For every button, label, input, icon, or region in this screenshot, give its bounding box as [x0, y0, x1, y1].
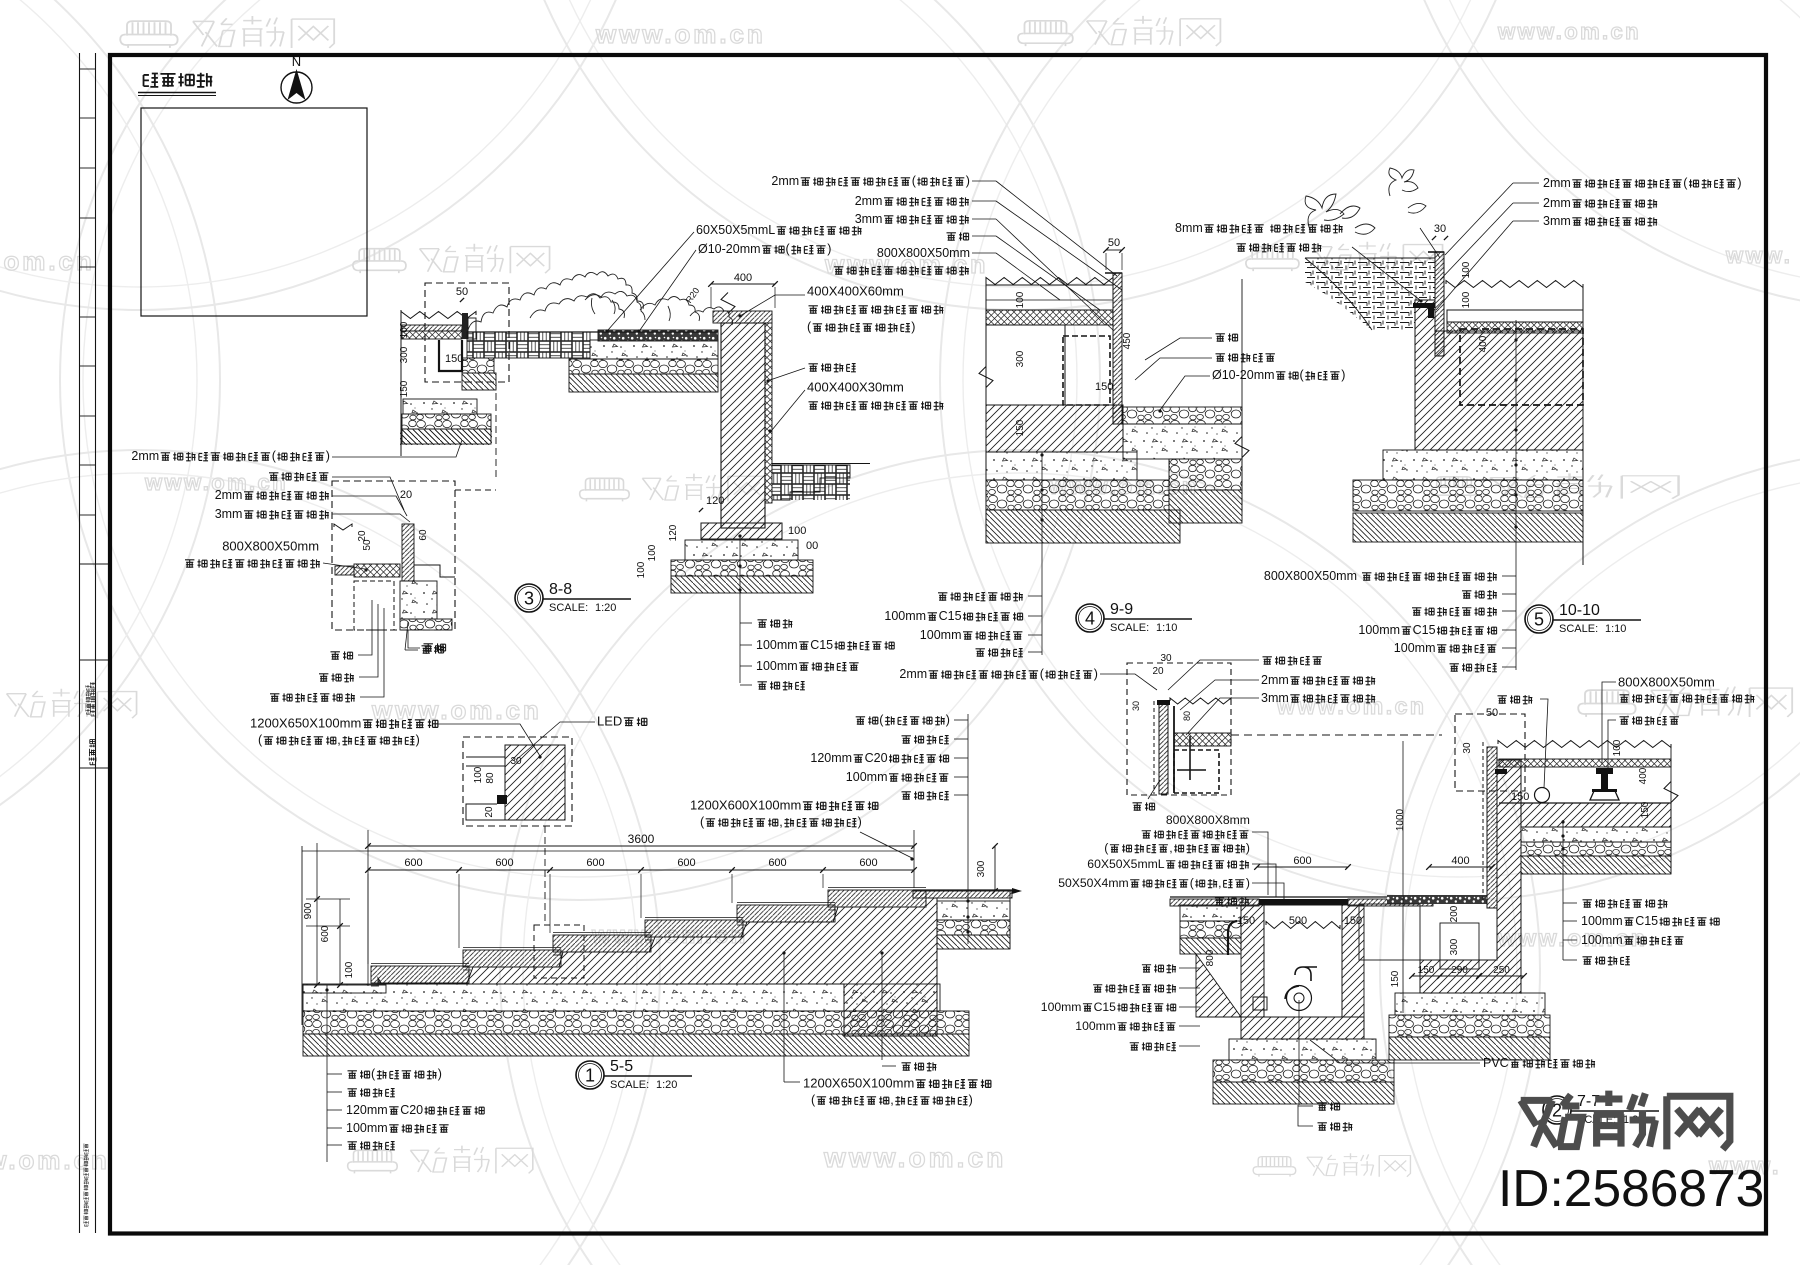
- svg-text:50: 50: [456, 286, 468, 298]
- svg-text:www.om.cn: www.om.cn: [595, 19, 766, 49]
- svg-text:150: 150: [1640, 801, 1651, 818]
- svg-text:50: 50: [1486, 707, 1498, 719]
- svg-text:100mm: 100mm: [1394, 641, 1436, 655]
- svg-text:30: 30: [1131, 701, 1141, 711]
- svg-text:50X50X4mm: 50X50X4mm: [1058, 876, 1128, 890]
- svg-text:60X50X5mmL: 60X50X5mmL: [696, 223, 775, 237]
- svg-text:800: 800: [1205, 949, 1216, 966]
- svg-text:): ): [1094, 667, 1098, 681]
- svg-text:2mm: 2mm: [771, 174, 799, 188]
- svg-text:): ): [966, 174, 970, 188]
- svg-text:): ): [969, 1093, 973, 1107]
- svg-text:): ): [326, 449, 330, 463]
- svg-text:100: 100: [1015, 291, 1026, 308]
- svg-text:100: 100: [473, 766, 484, 783]
- svg-text:Ø10-20mm: Ø10-20mm: [1212, 368, 1275, 382]
- svg-text:600: 600: [768, 857, 786, 869]
- svg-text:8-8: 8-8: [549, 581, 572, 598]
- svg-text:30: 30: [1160, 653, 1172, 664]
- svg-text:30: 30: [1462, 742, 1473, 754]
- svg-text:,: ,: [1169, 841, 1172, 855]
- svg-text:ID:2586873: ID:2586873: [1498, 1159, 1764, 1217]
- svg-text:400: 400: [1451, 855, 1469, 867]
- svg-text:1000: 1000: [1395, 808, 1406, 831]
- svg-text:): ): [858, 815, 862, 829]
- svg-text:C15: C15: [1635, 914, 1658, 928]
- svg-text:150: 150: [1237, 915, 1255, 927]
- svg-text:5-5: 5-5: [610, 1058, 633, 1075]
- svg-text:3mm: 3mm: [1261, 691, 1289, 705]
- svg-text:450: 450: [1122, 332, 1133, 349]
- svg-text:150: 150: [1344, 915, 1362, 927]
- svg-text:100mm: 100mm: [884, 609, 926, 623]
- svg-text:(: (: [1190, 876, 1194, 890]
- svg-text:900: 900: [303, 902, 314, 919]
- svg-text:150: 150: [399, 380, 410, 397]
- svg-text:C15: C15: [939, 609, 962, 623]
- svg-text:3mm: 3mm: [215, 507, 243, 521]
- svg-text:2mm: 2mm: [1543, 196, 1571, 210]
- svg-text:600: 600: [586, 857, 604, 869]
- svg-text:3mm: 3mm: [1543, 214, 1571, 228]
- svg-text:60X50X5mmL: 60X50X5mmL: [1087, 857, 1164, 871]
- svg-text:C15: C15: [1094, 1000, 1117, 1014]
- svg-text:): ): [438, 1067, 442, 1081]
- svg-text:400X400X30mm: 400X400X30mm: [807, 380, 904, 395]
- svg-text:C20: C20: [400, 1103, 423, 1117]
- svg-text:2mm: 2mm: [1543, 176, 1571, 190]
- svg-text:100mm: 100mm: [920, 628, 962, 642]
- svg-text:2mm: 2mm: [899, 667, 927, 681]
- svg-text:2mm: 2mm: [855, 194, 883, 208]
- svg-text:1:10: 1:10: [1605, 623, 1626, 635]
- svg-text:www.om.cn: www.om.cn: [0, 1145, 110, 1175]
- svg-text:C15: C15: [810, 638, 833, 652]
- svg-text:100: 100: [636, 561, 647, 578]
- svg-text:300: 300: [1449, 938, 1460, 955]
- svg-text:80: 80: [485, 772, 496, 784]
- svg-text:300: 300: [976, 860, 987, 877]
- svg-text:C20: C20: [865, 751, 888, 765]
- svg-text:400: 400: [1638, 767, 1649, 784]
- svg-text:600: 600: [495, 857, 513, 869]
- svg-text:100: 100: [1612, 739, 1623, 756]
- svg-text:150: 150: [1015, 419, 1026, 436]
- svg-text:100mm: 100mm: [846, 770, 888, 784]
- svg-text:100mm: 100mm: [756, 638, 798, 652]
- svg-text:9-9: 9-9: [1110, 601, 1133, 618]
- svg-text:1200X650X100mm: 1200X650X100mm: [250, 716, 361, 731]
- svg-text:150: 150: [445, 353, 463, 365]
- svg-text:,: ,: [337, 733, 340, 747]
- svg-text:Ø10-20mm: Ø10-20mm: [698, 242, 761, 256]
- svg-text:150: 150: [1418, 965, 1435, 976]
- svg-text:800X800X50mm: 800X800X50mm: [1618, 675, 1715, 690]
- svg-text:4: 4: [1085, 609, 1095, 629]
- svg-text:(: (: [1104, 841, 1108, 855]
- svg-text:2mm: 2mm: [131, 449, 159, 463]
- svg-text:800X800X8mm: 800X800X8mm: [1166, 813, 1250, 827]
- svg-text:120: 120: [668, 524, 679, 541]
- svg-text:100mm: 100mm: [1075, 1019, 1116, 1033]
- svg-text:30: 30: [1434, 223, 1446, 235]
- svg-text:100: 100: [344, 961, 355, 978]
- svg-text:,: ,: [779, 815, 782, 829]
- svg-text:www.: www.: [1725, 243, 1792, 268]
- svg-text:100mm: 100mm: [1581, 914, 1623, 928]
- svg-text:400X400X60mm: 400X400X60mm: [807, 284, 904, 299]
- svg-text:100: 100: [1461, 291, 1472, 308]
- svg-text:20: 20: [1152, 666, 1164, 677]
- svg-text:600: 600: [404, 857, 422, 869]
- svg-text:100mm: 100mm: [1358, 623, 1400, 637]
- svg-text:SCALE:: SCALE:: [1110, 622, 1149, 634]
- svg-text:1200X650X100mm: 1200X650X100mm: [803, 1076, 914, 1091]
- svg-text:50: 50: [362, 539, 373, 551]
- svg-text:60: 60: [418, 529, 429, 541]
- svg-text:150: 150: [1511, 791, 1529, 803]
- svg-text:600: 600: [677, 857, 695, 869]
- svg-text:200: 200: [1449, 905, 1460, 922]
- svg-text:): ): [416, 733, 420, 747]
- svg-text:10-10: 10-10: [1559, 602, 1600, 619]
- svg-text:1:10: 1:10: [1156, 622, 1177, 634]
- svg-text:800X800X50mm: 800X800X50mm: [877, 246, 970, 260]
- svg-text:1: 1: [585, 1066, 595, 1086]
- svg-text:5: 5: [1534, 610, 1544, 630]
- svg-text:100mm: 100mm: [756, 659, 798, 673]
- svg-text:SCALE:: SCALE:: [610, 1079, 649, 1091]
- svg-text:30: 30: [510, 756, 522, 767]
- svg-text:N: N: [292, 54, 301, 69]
- svg-text:100: 100: [788, 525, 806, 537]
- svg-text:LED: LED: [597, 714, 622, 729]
- svg-text:400: 400: [1478, 335, 1489, 352]
- svg-text:SCALE:: SCALE:: [1559, 623, 1598, 635]
- svg-text:www.om.cn: www.om.cn: [0, 246, 95, 276]
- svg-text:80: 80: [1182, 711, 1192, 721]
- svg-text:): ): [1246, 876, 1250, 890]
- svg-text:3mm: 3mm: [855, 212, 883, 226]
- svg-text:SCALE:: SCALE:: [549, 602, 588, 614]
- svg-text:800X800X50mm: 800X800X50mm: [1264, 569, 1357, 583]
- svg-text:2mm: 2mm: [215, 488, 243, 502]
- svg-text:400: 400: [734, 272, 752, 284]
- svg-text:50: 50: [1108, 237, 1120, 249]
- svg-text:300: 300: [1015, 350, 1026, 367]
- svg-text:120mm: 120mm: [346, 1103, 388, 1117]
- svg-text:20: 20: [400, 489, 412, 501]
- svg-text:2mm: 2mm: [1261, 673, 1289, 687]
- svg-text:150: 150: [1095, 381, 1113, 393]
- svg-text:1:20: 1:20: [656, 1079, 677, 1091]
- svg-text:PVC: PVC: [1483, 1056, 1509, 1070]
- svg-text:): ): [1341, 368, 1345, 382]
- svg-text:): ): [911, 320, 915, 334]
- svg-text:20: 20: [484, 806, 495, 818]
- svg-text:1200X600X100mm: 1200X600X100mm: [690, 798, 801, 813]
- svg-text:290: 290: [1451, 965, 1468, 976]
- svg-text:1:20: 1:20: [595, 602, 616, 614]
- svg-text:): ): [827, 242, 831, 256]
- svg-text:): ): [1737, 176, 1741, 190]
- svg-text:www.om.cn: www.om.cn: [1497, 19, 1641, 44]
- svg-text:3600: 3600: [628, 832, 655, 846]
- svg-text:100mm: 100mm: [1581, 933, 1623, 947]
- svg-text:600: 600: [859, 857, 877, 869]
- svg-text:C15: C15: [1413, 623, 1436, 637]
- svg-text:00: 00: [806, 540, 818, 552]
- svg-text:250: 250: [1493, 965, 1510, 976]
- svg-text:120mm: 120mm: [810, 751, 852, 765]
- svg-text:600: 600: [1293, 855, 1311, 867]
- svg-text:8mm: 8mm: [1175, 221, 1203, 235]
- svg-text:300: 300: [399, 346, 410, 363]
- svg-text:www.om.cn: www.om.cn: [371, 695, 542, 725]
- svg-text:500: 500: [1289, 915, 1307, 927]
- svg-text:150: 150: [1390, 970, 1401, 987]
- svg-text:100: 100: [647, 544, 658, 561]
- svg-text:): ): [1246, 841, 1250, 855]
- svg-text:600: 600: [320, 925, 331, 942]
- svg-text:100mm: 100mm: [346, 1121, 388, 1135]
- svg-text:,: ,: [1218, 876, 1221, 890]
- svg-text:100mm: 100mm: [1041, 1000, 1082, 1014]
- svg-text:3: 3: [524, 589, 534, 609]
- svg-text:800X800X50mm: 800X800X50mm: [222, 539, 319, 554]
- svg-text:100: 100: [399, 321, 410, 338]
- svg-text:,: ,: [890, 1093, 893, 1107]
- svg-text:): ): [946, 713, 950, 727]
- svg-text:120: 120: [706, 495, 724, 507]
- svg-text:www.om.cn: www.om.cn: [823, 1142, 1006, 1173]
